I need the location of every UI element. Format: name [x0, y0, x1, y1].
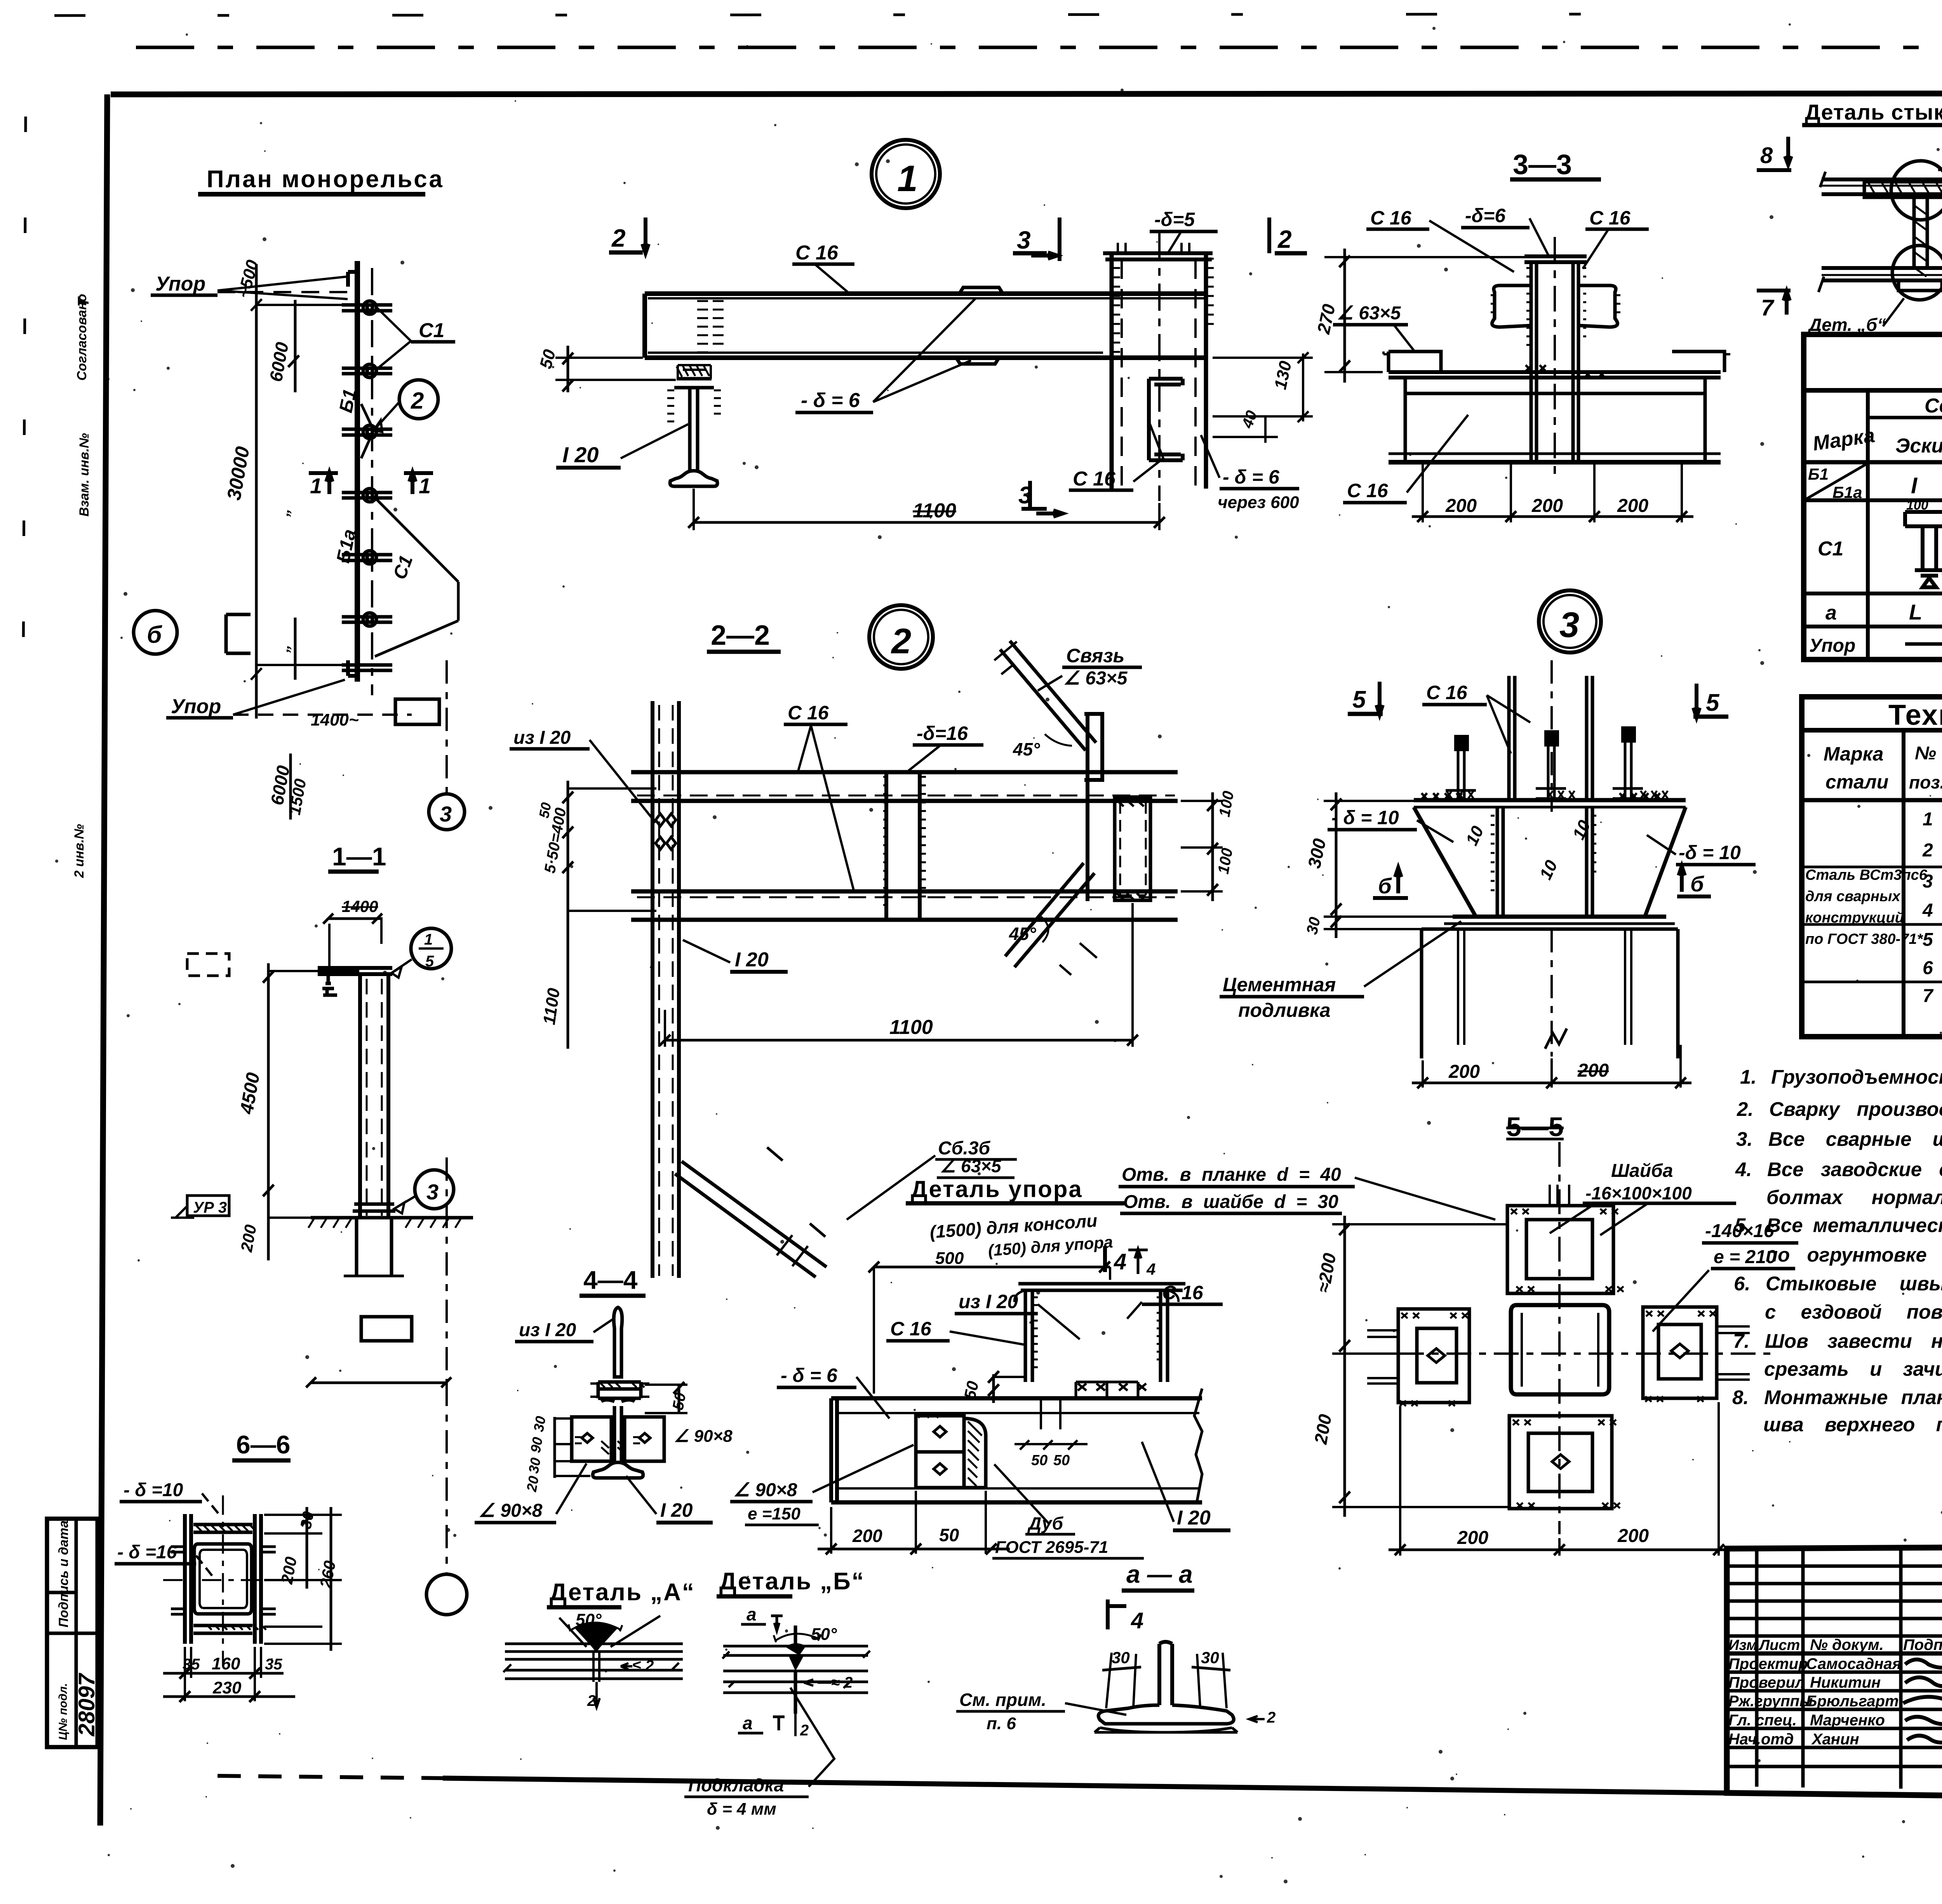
svg-text:∠ 90×8: ∠ 90×8: [674, 1427, 733, 1446]
svg-text:- δ = 6: - δ = 6: [781, 1364, 838, 1386]
svg-text:4: 4: [1922, 900, 1933, 921]
svg-text:500: 500: [935, 1249, 964, 1268]
svg-text:Монтажные планки δ=8 испол: Монтажные планки δ=8 использовать как по…: [1764, 1386, 1942, 1408]
svg-text:срезать и зачистить .: срезать и зачистить .: [1764, 1358, 1942, 1380]
svg-text:Техническая спецификация ста: Техническая спецификация стали: [1888, 699, 1942, 731]
svg-text:Сталь ВСт3пс6: Сталь ВСт3пс6: [1805, 867, 1928, 883]
svg-text:Сварку производить электрод: Сварку производить электродами типа Э-42…: [1769, 1098, 1942, 1120]
svg-text:а: а: [1825, 602, 1837, 624]
svg-text:I 20: I 20: [1177, 1507, 1211, 1529]
svg-text:стали: стали: [1825, 771, 1888, 793]
svg-text:3: 3: [426, 1180, 439, 1204]
svg-text:300: 300: [1304, 837, 1330, 870]
svg-text:Согласовано: Согласовано: [75, 294, 89, 381]
svg-text:100: 100: [1906, 498, 1928, 513]
svg-text:5: 5: [1352, 686, 1366, 713]
svg-text:Деталь „Б“: Деталь „Б“: [719, 1568, 865, 1595]
svg-text:1400~: 1400~: [311, 710, 359, 729]
svg-text:шва верхнего пояса .: шва верхнего пояса .: [1763, 1413, 1942, 1436]
svg-text:Нач.отд: Нач.отд: [1728, 1731, 1794, 1748]
svg-text:Марченко: Марченко: [1810, 1712, 1885, 1729]
svg-text:4—4: 4—4: [583, 1265, 638, 1294]
svg-text:2: 2: [411, 388, 424, 414]
svg-text:Никитин: Никитин: [1810, 1674, 1881, 1691]
svg-text:4500: 4500: [236, 1071, 264, 1116]
svg-text:Взам. инв.№: Взам. инв.№: [77, 433, 92, 517]
svg-text:∠ 63×5: ∠ 63×5: [1063, 668, 1128, 689]
svg-text:130: 130: [1271, 359, 1295, 392]
svg-text:Грузоподъемность тали: Грузоподъемность тали Q = 0,5 тс .: [1771, 1066, 1942, 1088]
svg-text:δ = 4 мм: δ = 4 мм: [707, 1800, 776, 1819]
svg-text:Лист: Лист: [1758, 1637, 1800, 1653]
svg-text:20: 20: [523, 1475, 542, 1493]
svg-text:2: 2: [1277, 225, 1292, 253]
svg-text:С 16: С 16: [1426, 682, 1468, 703]
svg-text:5: 5: [1706, 689, 1720, 716]
svg-text:30000: 30000: [223, 445, 254, 502]
svg-text:из I 20: из I 20: [519, 1320, 576, 1340]
svg-text:Подпись и дата: Подпись и дата: [56, 1520, 71, 1627]
svg-text:10: 10: [1536, 857, 1561, 883]
svg-text:30: 30: [1303, 915, 1324, 936]
svg-text:-16×100×100: -16×100×100: [1585, 1183, 1692, 1203]
svg-text:5.: 5.: [1735, 1214, 1751, 1236]
svg-text:для сварных: для сварных: [1805, 888, 1901, 905]
svg-text:4: 4: [1146, 1260, 1155, 1278]
svg-text:Шайба: Шайба: [1611, 1161, 1673, 1181]
svg-text:Проектир: Проектир: [1728, 1655, 1808, 1673]
svg-text:а: а: [743, 1713, 753, 1733]
svg-text:7: 7: [1761, 295, 1775, 320]
svg-text:≈200: ≈200: [1313, 1251, 1340, 1294]
svg-text:- δ = 10: - δ = 10: [1331, 807, 1399, 828]
svg-text:Изм: Изм: [1728, 1637, 1757, 1653]
svg-text:-δ = 10: -δ = 10: [1679, 842, 1741, 863]
svg-text:10: 10: [1462, 823, 1488, 849]
svg-text:Деталь стыка монорельса: Деталь стыка монорельса: [1805, 100, 1942, 124]
svg-text:3: 3: [1559, 605, 1579, 645]
svg-text:≈ 2: ≈ 2: [831, 1674, 853, 1691]
svg-text:100: 100: [1216, 790, 1237, 818]
svg-text:по ГОСТ 380-71*: по ГОСТ 380-71*: [1805, 931, 1923, 947]
svg-text:2 инв.№: 2 инв.№: [72, 824, 87, 878]
svg-text:Все металлические конструкции: Все металлические конструкции окрасить м…: [1766, 1214, 1942, 1236]
svg-text:Отв. в шайбе d = 30: Отв. в шайбе d = 30: [1123, 1192, 1338, 1212]
svg-text:Подпись: Подпись: [1903, 1636, 1942, 1653]
svg-text:Упор: Упор: [171, 695, 221, 718]
svg-text:35: 35: [265, 1656, 282, 1673]
svg-text:„: „: [275, 642, 293, 653]
svg-text:1100: 1100: [913, 499, 956, 522]
svg-text:№: №: [1915, 743, 1936, 764]
svg-text:200: 200: [1531, 496, 1563, 516]
svg-text:e =150: e =150: [748, 1504, 800, 1523]
svg-text:230: 230: [212, 1678, 242, 1697]
svg-text:болтах нормальной точнос: болтах нормальной точности М 12 .: [1766, 1186, 1942, 1208]
svg-text:Брюльгарт: Брюльгарт: [1806, 1693, 1899, 1710]
svg-text:Связь: Связь: [1066, 645, 1124, 667]
svg-text:Подкладка: Подкладка: [688, 1775, 784, 1795]
svg-text:ГОСТ 2695-71: ГОСТ 2695-71: [995, 1538, 1108, 1557]
svg-text:Все сварные швы hш = 6 мм,: Все сварные швы hш = 6 мм, кроме оговоре…: [1768, 1128, 1942, 1150]
svg-text:1: 1: [1923, 809, 1933, 830]
svg-text:≤ 2: ≤ 2: [632, 1657, 654, 1674]
svg-text:Сечения: Сечения: [1925, 395, 1942, 417]
svg-text:I 20: I 20: [562, 442, 599, 467]
svg-text:6—6: 6—6: [236, 1430, 290, 1459]
svg-text:6000: 6000: [266, 341, 292, 383]
svg-text:С 16: С 16: [1347, 480, 1389, 501]
svg-text:б: б: [1378, 874, 1392, 898]
svg-text:∠ 90×8: ∠ 90×8: [733, 1480, 797, 1500]
svg-text:200: 200: [852, 1526, 882, 1546]
svg-text:См. прим.: См. прим.: [959, 1690, 1046, 1710]
svg-text:б: б: [1690, 872, 1704, 896]
svg-text:200: 200: [1577, 1060, 1609, 1081]
svg-text:с ездовой поверхностью п: с ездовой поверхностью полки .: [1765, 1301, 1942, 1323]
svg-text:1—1: 1—1: [332, 842, 386, 871]
svg-text:1: 1: [310, 473, 322, 498]
svg-text:План монорельса: План монорельса: [207, 166, 444, 193]
svg-text:Деталь упора: Деталь упора: [911, 1176, 1083, 1202]
svg-text:подливка: подливка: [1238, 999, 1331, 1021]
svg-text:Ц№ подл.: Ц№ подл.: [57, 1683, 70, 1740]
svg-text:3: 3: [440, 802, 452, 826]
svg-text:С 16: С 16: [795, 242, 839, 264]
svg-text:Все заводские соединения св: Все заводские соединения сварные, монтаж…: [1767, 1158, 1942, 1180]
svg-text:2—2: 2—2: [711, 620, 770, 651]
svg-text:1100: 1100: [539, 987, 564, 1026]
svg-text:50: 50: [1053, 1452, 1070, 1469]
svg-text:200: 200: [1617, 1526, 1649, 1546]
svg-text:28097: 28097: [74, 1673, 99, 1737]
svg-text:35: 35: [183, 1656, 200, 1673]
svg-text:Гл. спец.: Гл. спец.: [1728, 1712, 1797, 1729]
svg-text:6.: 6.: [1734, 1272, 1751, 1295]
svg-text:Б1а: Б1а: [1832, 483, 1862, 501]
svg-text:2: 2: [800, 1722, 809, 1739]
svg-text:- δ = 6: - δ = 6: [801, 389, 860, 412]
svg-text:- δ =10: - δ =10: [124, 1480, 183, 1500]
svg-text:10: 10: [1569, 817, 1594, 843]
svg-text:2: 2: [1922, 840, 1933, 861]
svg-text:4.: 4.: [1735, 1158, 1752, 1180]
svg-text:7.: 7.: [1733, 1330, 1750, 1352]
svg-text:С 16: С 16: [890, 1318, 932, 1340]
svg-text:I 20: I 20: [660, 1499, 693, 1521]
svg-text:С 16: С 16: [1589, 207, 1631, 229]
svg-text:4: 4: [1131, 1608, 1143, 1633]
svg-text:8.: 8.: [1732, 1386, 1749, 1408]
svg-text:90: 90: [527, 1436, 546, 1454]
svg-text:Стыковые швы на ширине: Стыковые швы на ширине 30 мм зачистить з…: [1766, 1272, 1942, 1295]
svg-text:2: 2: [1267, 1709, 1276, 1726]
svg-text:С1: С1: [390, 553, 417, 582]
svg-text:45°: 45°: [1013, 739, 1040, 759]
svg-text:2: 2: [611, 224, 626, 252]
svg-text:200: 200: [1457, 1528, 1488, 1548]
svg-text:Отв. в планке d = 40: Отв. в планке d = 40: [1122, 1164, 1341, 1185]
svg-text:3.: 3.: [1736, 1128, 1753, 1150]
svg-text:2.: 2.: [1737, 1098, 1754, 1120]
svg-text:1: 1: [419, 473, 431, 498]
svg-text:50: 50: [536, 801, 554, 820]
svg-text:Деталь „А“: Деталь „А“: [550, 1579, 695, 1606]
svg-text:-δ=6: -δ=6: [1465, 205, 1506, 226]
svg-text:50: 50: [1031, 1452, 1048, 1469]
svg-text:7: 7: [1923, 986, 1934, 1006]
svg-text:6: 6: [1923, 958, 1933, 978]
svg-text:Проверил: Проверил: [1728, 1674, 1805, 1691]
svg-text:50: 50: [536, 347, 559, 371]
svg-text:а: а: [747, 1604, 757, 1624]
svg-text:Дуб: Дуб: [1027, 1513, 1064, 1533]
svg-text:из I 20: из I 20: [513, 727, 571, 748]
svg-text:50°: 50°: [811, 1625, 837, 1644]
svg-text:260: 260: [316, 1559, 339, 1589]
svg-text:С 16: С 16: [1073, 468, 1116, 490]
svg-text:5—5: 5—5: [1506, 1112, 1564, 1142]
svg-text:Упор: Упор: [1809, 635, 1855, 656]
svg-text:5: 5: [1923, 929, 1933, 950]
svg-text:Б1: Б1: [1808, 465, 1829, 483]
svg-text:3: 3: [1017, 226, 1031, 254]
svg-text:L: L: [1909, 600, 1922, 624]
svg-text:С1: С1: [419, 319, 444, 342]
svg-text:5: 5: [425, 953, 434, 970]
svg-text:200: 200: [1310, 1413, 1335, 1446]
svg-text:40: 40: [1239, 408, 1261, 431]
svg-text:I: I: [1911, 473, 1918, 498]
svg-text:4: 4: [1114, 1249, 1126, 1274]
svg-text:-δ=5: -δ=5: [1154, 209, 1195, 230]
svg-text:200: 200: [1448, 1062, 1480, 1082]
svg-text:конструкций: конструкций: [1805, 910, 1904, 926]
svg-text:Цементная: Цементная: [1223, 974, 1336, 996]
svg-text:Упор: Упор: [155, 273, 205, 295]
svg-text:∠ 63×5: ∠ 63×5: [1337, 303, 1401, 324]
svg-text:270: 270: [1313, 302, 1339, 336]
svg-text:Шов завести на подкладку,: Шов завести на подкладку, после сварки к…: [1765, 1330, 1942, 1352]
svg-text:С 16: С 16: [788, 702, 829, 724]
svg-text:а — а: а — а: [1126, 1560, 1193, 1588]
svg-text:50: 50: [939, 1525, 959, 1545]
svg-text:1: 1: [424, 931, 433, 948]
svg-text:С 16: С 16: [1370, 207, 1412, 229]
svg-text:Ханин: Ханин: [1811, 1731, 1859, 1748]
svg-text:160: 160: [212, 1654, 240, 1673]
svg-text:Эскиз: Эскиз: [1895, 435, 1942, 457]
svg-text:1100: 1100: [889, 1016, 933, 1039]
svg-text:Рж.группы: Рж.группы: [1728, 1693, 1813, 1710]
svg-text:45°: 45°: [1009, 924, 1036, 944]
svg-text:через 600: через 600: [1218, 493, 1299, 512]
svg-text:„: „: [275, 506, 293, 517]
svg-text:-δ=16: -δ=16: [917, 722, 968, 744]
svg-text:- δ =16: - δ =16: [117, 1542, 177, 1563]
svg-text:∠ 90×8: ∠ 90×8: [479, 1500, 543, 1521]
svg-text:2: 2: [891, 621, 911, 661]
svg-text:3: 3: [1018, 482, 1032, 509]
svg-text:8: 8: [1760, 143, 1773, 168]
svg-text:поз.: поз.: [1909, 772, 1942, 792]
svg-text:1400: 1400: [342, 897, 378, 915]
svg-text:30: 30: [531, 1415, 549, 1433]
svg-text:п. 6: п. 6: [987, 1714, 1016, 1733]
svg-text:из I 20: из I 20: [959, 1291, 1018, 1312]
svg-text:УР 3: УР 3: [193, 1199, 227, 1216]
svg-text:1.: 1.: [1740, 1066, 1757, 1088]
svg-text:30: 30: [1201, 1648, 1219, 1667]
svg-text:С1: С1: [1818, 538, 1843, 560]
svg-text:100: 100: [1215, 847, 1236, 875]
svg-text:200: 200: [1445, 496, 1477, 516]
svg-text:∠ 63×5: ∠ 63×5: [940, 1156, 1002, 1176]
svg-text:- δ = 6: - δ = 6: [1223, 466, 1280, 488]
svg-text:200: 200: [1617, 496, 1648, 516]
svg-text:№ докум.: № докум.: [1810, 1636, 1884, 1653]
svg-text:Самосадная: Самосадная: [1806, 1655, 1901, 1673]
svg-text:30: 30: [526, 1457, 544, 1475]
svg-text:б: б: [147, 621, 162, 648]
svg-text:200: 200: [237, 1223, 260, 1253]
svg-text:30: 30: [1112, 1648, 1130, 1667]
svg-text:Марка: Марка: [1824, 743, 1883, 765]
svg-text:по огрунтовке масляным грунт: по огрунтовке масляным грунтом с железны…: [1766, 1244, 1942, 1266]
svg-text:50: 50: [670, 1391, 689, 1411]
svg-text:I 20: I 20: [735, 949, 769, 971]
svg-text:30: 30: [298, 1510, 317, 1530]
svg-text:1: 1: [897, 158, 918, 199]
svg-text:3—3: 3—3: [1513, 149, 1572, 180]
